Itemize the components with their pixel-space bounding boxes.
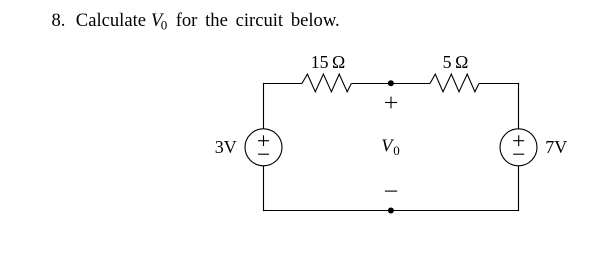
wire left vertical upper	[263, 83, 265, 129]
V2 plus sign	[513, 135, 524, 146]
label 7V	[545, 137, 567, 157]
wire top-left horizontal	[263, 83, 302, 85]
wire top-right horizontal	[479, 83, 519, 85]
resistor R2 5Ω zigzag	[430, 74, 479, 92]
svg-text:7V: 7V	[545, 137, 567, 157]
voltage source V2 circle	[500, 129, 537, 166]
label 5Ω	[443, 52, 469, 72]
wire left vertical lower	[263, 166, 265, 211]
wire right vertical lower	[518, 166, 520, 211]
V0 minus polarity mark	[385, 190, 397, 192]
node bottom junction dot	[388, 208, 394, 214]
V1 plus sign	[258, 135, 269, 146]
svg-text:15 Ω: 15 Ω	[311, 52, 346, 72]
wire top-middle horizontal	[351, 83, 430, 85]
voltage source V1 circle	[245, 129, 282, 166]
title	[52, 10, 340, 33]
label V0	[381, 135, 399, 158]
wire right vertical upper	[518, 83, 520, 129]
svg-text:0: 0	[393, 143, 400, 158]
node top junction dot	[388, 80, 394, 86]
svg-text:5 Ω: 5 Ω	[443, 52, 469, 72]
label 3V	[215, 137, 237, 157]
V2 minus sign	[513, 153, 524, 155]
wire bottom horizontal	[263, 210, 519, 212]
resistor R1 15Ω zigzag	[302, 74, 351, 92]
svg-text:8.CalculateV0for the circuit b: 8.CalculateV0for the circuit below.	[52, 10, 340, 33]
label 15Ω	[311, 52, 346, 72]
V0 plus polarity mark	[385, 97, 397, 109]
svg-text:3V: 3V	[215, 137, 237, 157]
V1 minus sign	[258, 153, 269, 155]
